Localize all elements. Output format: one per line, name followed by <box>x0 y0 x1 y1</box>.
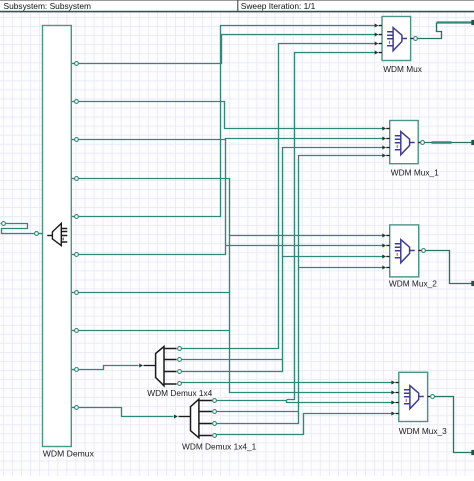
WDM Demux 1x4 output port <box>178 347 182 351</box>
wire subsystem input to WDM Demux input <box>2 224 35 234</box>
wire branch to Mux_2 in3 <box>283 256 383 258</box>
wire Mux_2 output to terminal 3 <box>426 251 473 284</box>
WDM Demux 1x4_1 output port <box>213 399 217 403</box>
U1 input port <box>375 42 379 46</box>
wire branch to Mux_2 in4 <box>299 267 383 269</box>
WDM Demux 1x4_1 component <box>191 399 199 438</box>
wire d1 out4 to Mux_3 in1 <box>182 382 392 384</box>
svg-text:Sweep Iteration: 1/1: Sweep Iteration: 1/1 <box>241 1 316 11</box>
wire branch to Mux_2 in2 <box>226 245 383 247</box>
U3 input port <box>382 255 386 259</box>
U4 input port <box>391 412 395 416</box>
WDM Mux component U2 body <box>390 121 419 164</box>
U3 output port <box>419 250 422 252</box>
U2 input port <box>382 146 386 150</box>
wire p9 to WDM Demux 1x4 input <box>79 366 139 370</box>
wire p7 p8 column to Mux_3 in2 <box>230 236 392 393</box>
WDM Demux 1x4_1 output port <box>213 422 217 426</box>
svg-text:WDM Demux 1x4: WDM Demux 1x4 <box>147 388 212 398</box>
WDM Demux 1x4 output port <box>178 370 182 374</box>
WDM Demux output port 10 <box>72 407 75 409</box>
WDM Demux component body <box>43 26 72 447</box>
WDM Demux 1x4 output port <box>178 382 182 386</box>
U3 input port <box>382 234 386 238</box>
WDM Demux 1x4_1 input port <box>174 415 178 419</box>
svg-text:WDM Mux_2: WDM Mux_2 <box>389 279 437 289</box>
U3 icon <box>395 240 415 263</box>
WDM Demux 1x4 component <box>156 347 164 386</box>
U2 output port <box>418 142 421 144</box>
svg-text:WDM Mux_1: WDM Mux_1 <box>391 167 439 177</box>
WDM Demux 1x4_1 output port <box>213 434 217 438</box>
terminal 3 <box>471 281 474 286</box>
U3 input port <box>382 266 386 270</box>
svg-text:Subsystem: Subsystem: Subsystem: Subsystem <box>4 1 92 11</box>
WDM Demux output port 5 <box>72 216 75 218</box>
wire d2 out4 to Mux_3 in4 <box>217 414 392 435</box>
WDM Demux 1x4 output port <box>178 358 182 362</box>
WDM Demux output port 8 <box>72 330 75 332</box>
U1 icon <box>387 28 407 51</box>
WDM Demux output port 3 <box>72 139 75 141</box>
wire d2 out2 <box>217 411 299 413</box>
wire d1 out3 column to Mux_1 in3 <box>182 148 383 372</box>
U2 input port <box>382 127 386 131</box>
wire d1 out2 <box>182 359 283 361</box>
U4 input port <box>391 401 395 405</box>
WDM Demux output port 9 <box>72 369 75 371</box>
U3 input port <box>382 244 386 248</box>
U1 input port <box>375 51 379 55</box>
wire p1 to Mux in2 <box>79 35 375 64</box>
U1 input port <box>375 33 379 37</box>
WDM Demux output port 1 <box>72 63 75 65</box>
tab bar <box>0 0 474 12</box>
terminal 1 <box>471 20 474 25</box>
wire p2 to Mux_1 in1 <box>79 102 383 129</box>
wire p6 column <box>79 139 226 255</box>
WDM Demux input port <box>35 232 39 236</box>
wire Mux output to terminal 1 <box>418 23 442 39</box>
U2 input port <box>382 154 386 158</box>
wire Mux_1 output to terminal 2 <box>425 142 473 144</box>
svg-text:WDM Mux_3: WDM Mux_3 <box>399 426 447 436</box>
wire Mux_3 output to terminal 4 <box>435 397 473 453</box>
wire p10 to WDM Demux 1x4_1 input <box>79 408 174 417</box>
WDM Demux output port 2 <box>72 101 75 103</box>
WDM Mux component U3 body <box>390 225 419 277</box>
U4 output port <box>428 396 431 398</box>
WDM Demux icon <box>47 223 67 245</box>
terminal 4 <box>471 450 474 455</box>
wire p5 to Mux in1 <box>79 26 375 217</box>
wire d2 out3 column to Mux_1 in4 <box>217 156 383 424</box>
wire p3 to Mux_1 in2 <box>79 139 383 140</box>
U1 output port <box>411 38 414 40</box>
wire p4 to Mux_2 in1 <box>79 179 383 236</box>
WDM Demux output port 6 <box>72 254 75 256</box>
U2 input port <box>382 137 386 141</box>
WDM Demux output port 4 <box>72 178 75 180</box>
svg-text:WDM Demux: WDM Demux <box>43 448 95 458</box>
wire d2 out1 to Mux_3 in3 <box>217 401 392 403</box>
WDM Demux output port 7 <box>72 292 75 294</box>
WDM Demux 1x4_1 output port <box>213 410 217 414</box>
U2 icon <box>395 132 415 155</box>
U1 input port <box>375 24 379 28</box>
wire staircase to Mux in4 <box>287 53 375 400</box>
WDM Demux 1x4 input port <box>139 364 143 368</box>
wire d1 out1 to Mux in3 <box>182 44 375 349</box>
WDM Mux component U1 body <box>382 17 411 61</box>
WDM Mux component U4 body <box>399 372 428 421</box>
svg-text:WDM Mux: WDM Mux <box>383 64 423 74</box>
U4 input port <box>391 381 395 385</box>
terminal 2 <box>471 140 474 145</box>
svg-text:WDM Demux 1x4_1: WDM Demux 1x4_1 <box>182 442 257 452</box>
U4 icon <box>404 386 424 409</box>
subsystem input port <box>1 223 2 225</box>
U4 input port <box>391 391 395 395</box>
